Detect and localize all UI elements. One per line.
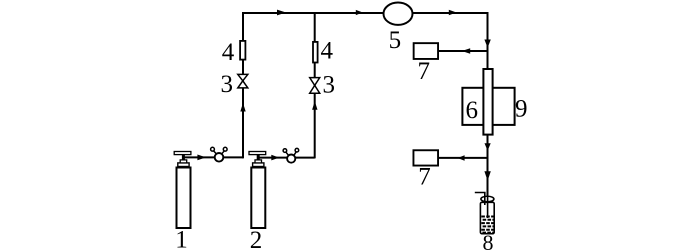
svg-text:9: 9 [515,95,528,122]
svg-text:2: 2 [250,227,263,251]
svg-text:5: 5 [389,27,402,54]
svg-text:7: 7 [417,58,430,85]
svg-text:4: 4 [222,39,235,66]
svg-text:3: 3 [323,72,336,99]
svg-text:3: 3 [221,71,234,98]
svg-text:7: 7 [418,164,431,191]
svg-text:1: 1 [175,227,188,251]
svg-text:6: 6 [465,97,478,124]
svg-text:8: 8 [483,230,494,251]
svg-text:4: 4 [321,38,334,65]
